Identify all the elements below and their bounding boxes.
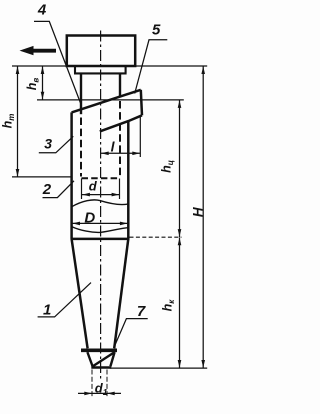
extension line tube bottom level left	[12, 176, 72, 178]
extension line top (lid level)	[12, 65, 207, 67]
svg-text:H: H	[190, 207, 205, 217]
svg-text:5: 5	[152, 22, 161, 39]
leader label 3	[39, 136, 74, 153]
D right arrow	[120, 222, 128, 226]
H bottom arrow	[201, 360, 205, 368]
h_v top arrow	[41, 66, 45, 74]
flange step under cap	[75, 67, 126, 73]
dimension line h_c and h_k shared vertical	[179, 100, 181, 368]
dimension line d	[82, 194, 120, 196]
exhaust tube solid walls	[80, 73, 82, 114]
cylinder right wall	[127, 121, 130, 239]
l right arrow	[132, 152, 140, 156]
dimension line l	[101, 152, 140, 154]
svg-text:3: 3	[44, 136, 52, 152]
dust outlet flange bar	[81, 348, 117, 352]
D left arrow	[72, 222, 80, 226]
arrowheads	[16, 46, 205, 395]
gas outlet thick arrow	[20, 46, 57, 55]
leader label 5	[135, 40, 168, 94]
dimension line H	[202, 66, 204, 368]
d right arrow	[112, 193, 120, 197]
cylinder bottom line	[71, 238, 130, 241]
d left arrow	[82, 193, 90, 197]
dimension line D	[72, 222, 128, 224]
exhaust tube hidden dashed walls	[80, 118, 82, 177]
d1 right arrow pointing left	[107, 392, 115, 396]
inlet pipe bottom edge	[100, 115, 142, 131]
svg-text:d: d	[89, 178, 98, 193]
leader label 1	[38, 283, 91, 317]
svg-text:D: D	[84, 209, 95, 226]
extension line cylinder bottom dashed right	[130, 236, 182, 238]
h_t top arrow	[16, 66, 20, 74]
svg-text:2: 2	[42, 181, 52, 198]
dimension line h_t	[17, 66, 19, 177]
leader label 2	[43, 181, 75, 198]
h_k top arrow	[178, 238, 182, 246]
h_k bottom arrow	[178, 360, 182, 368]
spigot trapezoid left	[87, 352, 92, 366]
spigot bottom bar	[91, 366, 111, 368]
extension line inlet top level	[37, 99, 184, 101]
leader label 4	[34, 21, 81, 103]
extension line d1 left dashed	[91, 370, 93, 397]
leader label 7	[115, 319, 148, 346]
inlet pipe top edge	[72, 90, 141, 113]
H top arrow	[201, 66, 205, 74]
inlet pipe right edge	[141, 90, 142, 116]
svg-text:1: 1	[43, 301, 51, 318]
h_c bottom arrow	[178, 229, 182, 237]
extension line d right	[119, 179, 121, 200]
h_t bottom arrow	[16, 169, 20, 177]
extension line d left	[81, 179, 83, 200]
svg-text:7: 7	[137, 303, 146, 320]
extension line inlet outer edge for l	[139, 117, 141, 158]
h_v bottom arrow	[41, 92, 45, 100]
cylinder left wall	[70, 112, 73, 238]
extension line bottom (cone outlet level)	[110, 367, 207, 369]
break wavy line lower	[72, 227, 129, 233]
cone left side	[72, 239, 88, 348]
dimension line h_v	[42, 66, 44, 100]
top cap rectangle	[67, 36, 135, 67]
break wavy line upper	[72, 200, 129, 207]
wire centre axis dash-dot	[100, 31, 102, 379]
dimension line d1	[78, 392, 121, 394]
h_c top arrow	[178, 100, 182, 108]
spigot trapezoid right	[110, 352, 114, 366]
cone right side	[114, 239, 128, 348]
d1 left arrow pointing right	[84, 392, 92, 396]
l left arrow	[101, 152, 109, 156]
spigot diagonal	[93, 352, 115, 366]
exhaust tube dashed bottom	[82, 177, 120, 179]
svg-text:4: 4	[37, 2, 47, 19]
extension line d1 right dashed	[106, 370, 108, 397]
